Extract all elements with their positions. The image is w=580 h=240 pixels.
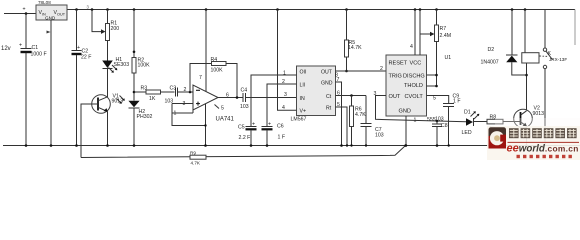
capacitor C9 1uF [443, 94, 460, 147]
LED D1 [462, 110, 488, 137]
svg-text:1K: 1K [149, 96, 156, 102]
svg-text:4.7K: 4.7K [191, 161, 201, 166]
svg-text:D2: D2 [488, 47, 495, 53]
svg-text:5: 5 [337, 102, 340, 108]
svg-text:R7: R7 [440, 26, 447, 32]
svg-text:GND: GND [45, 16, 56, 21]
wire: top +8V rail [67, 10, 575, 46]
svg-text:1: 1 [174, 111, 177, 117]
svg-text:D1: D1 [464, 110, 471, 116]
wire: V1 base to lower R9 line [81, 104, 98, 158]
svg-text:1: 1 [414, 118, 417, 124]
svg-text:THOLD: THOLD [404, 83, 423, 89]
wire: 567 pin7 GND down [336, 77, 343, 147]
svg-text:1: 1 [283, 71, 286, 77]
svg-text:JRX-13F: JRX-13F [549, 57, 567, 62]
svg-text:2: 2 [380, 66, 383, 72]
resistor R6 4.7K [350, 96, 367, 147]
svg-text:5: 5 [221, 106, 224, 112]
svg-text:7: 7 [199, 75, 202, 81]
svg-text:R9: R9 [190, 151, 196, 156]
svg-text:2: 2 [184, 87, 187, 93]
wire: 555 CVOLT stub to C9 [427, 96, 449, 104]
svg-text:22 F: 22 F [81, 55, 91, 61]
svg-text:R4: R4 [211, 57, 218, 63]
wire: 555 VCC to rail + R7 wiper [419, 8, 435, 55]
svg-text:4.7K: 4.7K [355, 112, 366, 118]
watermark red rule [508, 141, 580, 143]
wire: 567 pin2 to C6 [267, 79, 297, 126]
svg-text:1 F: 1 F [278, 135, 286, 141]
svg-text:OUT: OUT [57, 13, 66, 17]
capacitor C5 2.2uF [238, 122, 257, 147]
op-amp U2 UA741 [183, 85, 235, 123]
watermark chinese title (simulated glyph blocks) [509, 128, 577, 138]
svg-text:103: 103 [375, 133, 384, 139]
wire: bottom ground rail [3, 145, 580, 147]
resistor R3 1K [134, 86, 175, 103]
svg-text:1N4007: 1N4007 [481, 60, 499, 66]
wire: 12v input wire [4, 7, 36, 14]
svg-text:GND: GND [399, 108, 411, 114]
wire: op-amp pin4 down to ground [204, 104, 224, 147]
svg-text:Rt: Rt [326, 106, 332, 112]
svg-text:1000 F: 1000 F [31, 52, 47, 58]
svg-text:4: 4 [282, 105, 285, 111]
svg-text:2: 2 [282, 79, 285, 85]
wire: 567 pin4 V+ from rail [276, 8, 296, 111]
svg-text:14.7K: 14.7K [348, 45, 362, 51]
wire: op-amp pin3 input + pin1 loop [172, 104, 206, 126]
svg-text:GND: GND [321, 81, 333, 87]
svg-text:3: 3 [374, 91, 377, 97]
svg-text:R3: R3 [141, 86, 148, 92]
wire: 567 pin1 to C5 [251, 71, 297, 127]
svg-text:V+: V+ [300, 109, 307, 115]
svg-text:C8: C8 [441, 123, 448, 129]
wire: 555 RESET to rail [410, 8, 416, 55]
svg-text:12v: 12v [1, 46, 11, 52]
capacitor C2 22uF [72, 8, 92, 147]
svg-text:+: + [23, 7, 26, 13]
svg-text:RESET: RESET [389, 60, 408, 66]
transistor V2 9013 [514, 106, 544, 147]
svg-text:103: 103 [435, 117, 444, 123]
svg-text:PH302: PH302 [137, 114, 153, 120]
wire: R1 wiper from rail [91, 8, 106, 34]
svg-text:+: + [252, 122, 255, 128]
svg-text:LED: LED [462, 130, 472, 136]
wire: 567 pin8 OUT to 555 TRIG [335, 66, 386, 79]
svg-text:78L08: 78L08 [38, 0, 51, 5]
wire: 555 OUT pin3 down and right (drive chain) [374, 91, 467, 124]
svg-text:200: 200 [111, 26, 120, 32]
capacitor C4 103 [240, 88, 297, 111]
wire: op-amp pin7 to rail [199, 8, 207, 91]
svg-text:C6: C6 [277, 124, 284, 130]
relay K coil [522, 8, 539, 63]
regulator U3 78L08 [36, 0, 67, 20]
LED H1 SE303 (IR emitter) [102, 57, 129, 97]
node: junction input/C1 [25, 12, 28, 15]
diode D2 1N4007 [481, 8, 527, 75]
tone decoder U4 LM567 [291, 66, 336, 123]
capacitor C7 103 [361, 96, 384, 147]
potentiometer R7 2.4M [435, 8, 452, 86]
svg-text:UA741: UA741 [216, 117, 235, 123]
svg-text:TRIG: TRIG [389, 73, 402, 79]
svg-text:LII: LII [300, 83, 306, 89]
wire: 555 DISCHG stub [427, 74, 438, 77]
capacitor C1 1000uF [19, 14, 47, 147]
svg-text:OUT: OUT [389, 94, 401, 100]
svg-text:OUT: OUT [321, 70, 333, 76]
svg-text:+: + [77, 45, 80, 51]
potentiometer R1 200 [106, 8, 120, 60]
wire: lower R9 return line [81, 146, 406, 158]
resistor R8 1k [487, 115, 521, 133]
svg-text:C4: C4 [241, 88, 248, 94]
svg-text:1 F: 1 F [453, 99, 461, 105]
wire: 78L08 GND lead down to ground [47, 20, 53, 147]
watermark small red tagline (simulated) [517, 155, 572, 158]
resistor R4 100K feedback [189, 57, 237, 98]
resistor R2 100K [132, 8, 150, 100]
svg-text:C1: C1 [32, 45, 39, 51]
svg-text:103: 103 [240, 104, 249, 110]
svg-text:100K: 100K [211, 68, 224, 74]
resistor R5 14.7K [345, 8, 363, 72]
svg-text:9013: 9013 [533, 111, 545, 117]
svg-text:7: 7 [337, 77, 340, 83]
resistor R9 4.7K [190, 151, 206, 166]
watermark EEWorld logo [489, 127, 507, 148]
svg-text:+: + [268, 122, 271, 128]
node: R2/R3/H2 junction [133, 91, 136, 94]
svg-text:VCC: VCC [410, 60, 422, 66]
svg-text:2.4M: 2.4M [440, 33, 452, 39]
svg-text:4: 4 [410, 44, 413, 50]
node: 555 GND to ground rail [404, 116, 407, 147]
svg-text:C5: C5 [238, 125, 245, 131]
wire: 555 THOLD stub [427, 85, 438, 88]
svg-text:eeworld.com.cn: eeworld.com.cn [507, 142, 579, 154]
svg-text:CVOLT: CVOLT [405, 94, 424, 100]
svg-text:IN: IN [300, 96, 305, 102]
wire: op-amp output [218, 93, 243, 99]
photodiode H2 PH302 [117, 96, 153, 147]
svg-text:C3: C3 [170, 86, 177, 92]
svg-text:OII: OII [300, 70, 307, 76]
svg-text:100K: 100K [138, 63, 151, 69]
transistor V1 9013 [92, 94, 123, 147]
capacitor C8 103 [432, 117, 448, 147]
timer U1 555 [386, 55, 451, 123]
wire: 567 pin5 Rt down [336, 102, 349, 147]
relay contact K JRX-13F [540, 10, 568, 146]
svg-text:3: 3 [284, 92, 287, 98]
capacitor C3 103 [165, 86, 194, 105]
svg-text:DISCHG: DISCHG [403, 73, 425, 79]
svg-text:Ct: Ct [326, 94, 332, 100]
svg-text:2.2 F: 2.2 F [239, 135, 251, 141]
svg-text:6: 6 [337, 91, 340, 97]
svg-text:5: 5 [433, 96, 436, 102]
svg-text:SE303: SE303 [114, 62, 130, 68]
svg-text:+: + [19, 43, 22, 49]
wire: 567 pin6 Ct [336, 91, 367, 97]
svg-text:6: 6 [226, 93, 229, 99]
wire: V2 collector up [525, 63, 528, 111]
svg-text:LM567: LM567 [291, 117, 307, 123]
watermark wash [487, 126, 580, 160]
svg-text:U1: U1 [445, 55, 452, 61]
capacitor C6 1uF [262, 122, 286, 147]
